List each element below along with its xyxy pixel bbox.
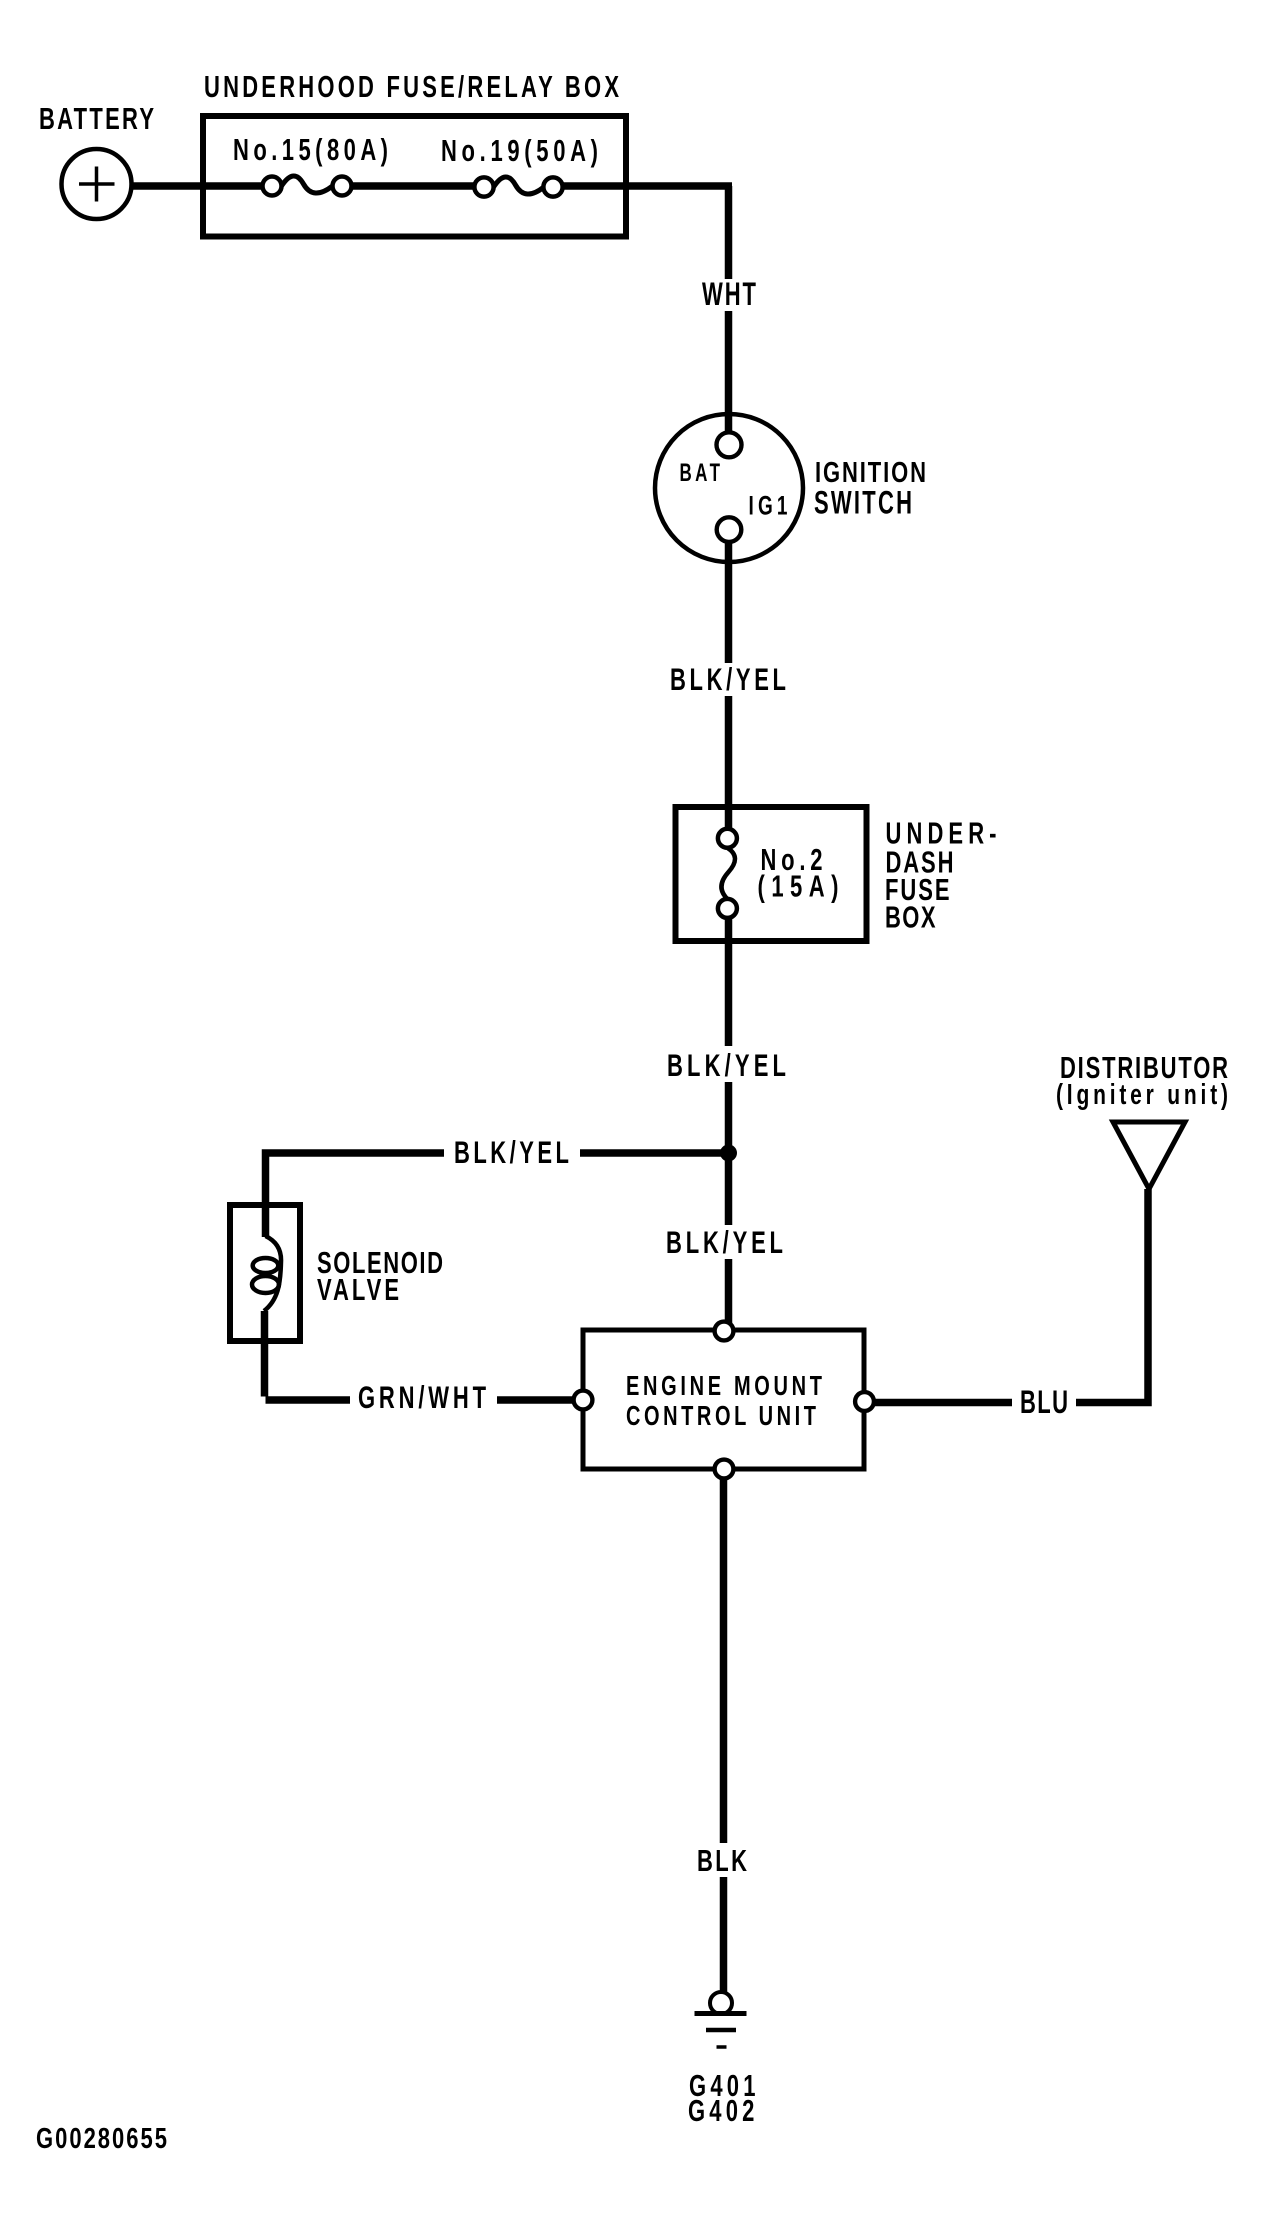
underhood fuse/relay box bbox=[203, 116, 626, 237]
label (15A) bbox=[758, 869, 839, 904]
svg-text:BLU: BLU bbox=[1020, 1384, 1068, 1420]
label IGNITION bbox=[815, 457, 926, 488]
svg-text:G00280655: G00280655 bbox=[36, 2123, 167, 2154]
distributor (igniter unit) triangle symbol bbox=[1113, 1122, 1185, 1189]
wire label GRN/WHT bbox=[350, 1378, 497, 1415]
wire label BLK bbox=[691, 1843, 753, 1878]
engine mount control unit top terminal bbox=[715, 1322, 734, 1341]
ground bar 2 bbox=[706, 2028, 736, 2033]
label (Igniter unit) bbox=[1056, 1079, 1228, 1111]
engine mount control unit box bbox=[583, 1330, 864, 1469]
label VALVE bbox=[317, 1272, 399, 1307]
solenoid coil right arc bbox=[264, 1236, 281, 1311]
label No.19(50A) bbox=[441, 133, 598, 168]
label CONTROL UNIT bbox=[626, 1401, 816, 1432]
label FUSE bbox=[885, 872, 950, 907]
ignition switch circle bbox=[655, 414, 803, 562]
label BATTERY bbox=[39, 101, 154, 136]
svg-text:WHT: WHT bbox=[702, 276, 756, 312]
wire BLK engine mount control unit to ground bbox=[720, 1478, 728, 1993]
ground G401/G402 terminal circle bbox=[710, 1992, 732, 2014]
wire WHT vertical, corner to ignition switch BAT terminal bbox=[725, 186, 733, 437]
wire label BLK/YEL 1 (ignition to fuse box) bbox=[664, 661, 792, 697]
battery B1 plus sign bbox=[79, 167, 115, 202]
fuse No.2 bottom terminal circle bbox=[718, 899, 737, 918]
svg-text:CONTROL UNIT: CONTROL UNIT bbox=[626, 1401, 816, 1432]
svg-text:G402: G402 bbox=[688, 2093, 754, 2128]
junction node BLK/YEL branch bbox=[720, 1145, 737, 1162]
fuse No.19 right terminal circle bbox=[543, 177, 562, 196]
ground bar 1 bbox=[695, 2011, 747, 2016]
svg-text:ENGINE MOUNT: ENGINE MOUNT bbox=[626, 1371, 822, 1402]
wire label WHT bbox=[696, 276, 762, 312]
ground bar 3 bbox=[717, 2045, 727, 2049]
fuse No.2 top terminal circle bbox=[718, 829, 737, 848]
label ENGINE MOUNT bbox=[626, 1371, 822, 1402]
solenoid coil loop 2 bbox=[252, 1276, 279, 1293]
wire fuse No.19 to top-right corner bbox=[560, 182, 732, 190]
svg-text:BAT: BAT bbox=[680, 460, 721, 487]
solenoid coil loop 1 bbox=[253, 1258, 279, 1273]
engine mount control unit right terminal bbox=[855, 1392, 874, 1411]
engine mount control unit bottom terminal bbox=[715, 1460, 734, 1479]
fuse No.2(15A) element s-curve bbox=[721, 848, 735, 899]
svg-text:No.19(50A): No.19(50A) bbox=[441, 133, 598, 168]
fuse No.15 right terminal circle bbox=[333, 177, 352, 196]
wire battery to fuse No.15 bbox=[132, 182, 266, 190]
pin label IG1 bbox=[749, 490, 788, 520]
label SOLENOID bbox=[317, 1245, 443, 1280]
label BOX bbox=[885, 900, 936, 935]
wire BLK/YEL under-dash fuse box to engine mount control unit bbox=[725, 917, 733, 1323]
wire label BLU bbox=[1012, 1384, 1076, 1420]
label DASH bbox=[886, 845, 954, 880]
engine mount control unit left terminal bbox=[574, 1391, 593, 1410]
wire BLK/YEL branch, junction to solenoid valve bbox=[266, 1153, 729, 1237]
wire label BLK/YEL 3 (branch to solenoid) bbox=[444, 1134, 580, 1170]
label No.15(80A) bbox=[233, 132, 388, 167]
fuse No.19 left terminal circle bbox=[474, 177, 493, 196]
label No.2 bbox=[761, 842, 823, 877]
wire label BLK/YEL 4 (junction to control unit) bbox=[660, 1224, 789, 1260]
label G402 bbox=[688, 2093, 754, 2128]
wire GRN/WHT solenoid valve to engine mount control unit bbox=[265, 1311, 579, 1400]
fuse No.15 left terminal circle bbox=[263, 177, 282, 196]
label SWITCH bbox=[814, 484, 912, 520]
label G401 bbox=[689, 2068, 756, 2103]
fuse No.19(50A) element s-curve bbox=[494, 177, 544, 194]
figure id G00280655 bbox=[36, 2123, 167, 2154]
svg-text:UNDERHOOD FUSE/RELAY BOX: UNDERHOOD FUSE/RELAY BOX bbox=[204, 69, 619, 104]
label UNDER- bbox=[886, 816, 997, 851]
wire label BLK/YEL 2 (below fuse box) bbox=[661, 1046, 792, 1083]
solenoid valve box bbox=[230, 1205, 300, 1341]
svg-text:BATTERY: BATTERY bbox=[39, 101, 154, 136]
pin label BAT bbox=[680, 460, 721, 487]
label DISTRIBUTOR bbox=[1060, 1050, 1228, 1085]
svg-text:BOX: BOX bbox=[885, 900, 936, 935]
battery B1 circle bbox=[62, 149, 132, 219]
wire fuse No.15 to fuse No.19 bbox=[349, 182, 477, 190]
svg-text:No.15(80A): No.15(80A) bbox=[233, 132, 388, 167]
under-dash fuse box bbox=[676, 807, 867, 941]
wire BLU engine mount control unit to distributor bbox=[874, 1189, 1148, 1403]
ignition switch BAT terminal bbox=[717, 432, 742, 457]
fuse No.15(80A) element s-curve bbox=[282, 176, 333, 193]
ignition switch IG1 terminal bbox=[717, 517, 742, 542]
svg-text:BLK: BLK bbox=[697, 1843, 748, 1878]
label UNDERHOOD FUSE/RELAY BOX bbox=[204, 69, 619, 104]
wire BLK/YEL ignition switch IG1 to under-dash fuse box bbox=[725, 542, 733, 830]
svg-text:VALVE: VALVE bbox=[317, 1272, 399, 1307]
